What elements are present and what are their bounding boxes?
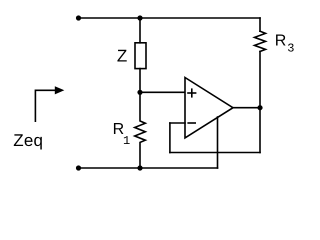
- svg-text:R: R: [275, 32, 287, 49]
- svg-text:Zeq: Zeq: [13, 131, 43, 150]
- node: top-left input terminal: [76, 15, 81, 20]
- wire: inverting input stub: [170, 122, 185, 124]
- op-amp - input marking: [188, 122, 195, 124]
- resistor R1: [135, 92, 146, 168]
- junction: top rail / Z branch: [137, 15, 142, 20]
- node: bottom-left terminal: [76, 165, 81, 170]
- wire: Z top lead: [139, 18, 141, 43]
- junction: R1 bottom / bottom rail: [137, 165, 142, 170]
- svg-text:1: 1: [123, 134, 130, 148]
- wire: top rail drop to R3: [259, 18, 261, 31]
- junction: output node (R3 bottom / output / feedback): [257, 105, 262, 110]
- op-amp U1 (triangle body): [185, 78, 233, 138]
- svg-text:3: 3: [287, 42, 294, 56]
- arrow: Zeq looking-in indicator: [35, 86, 64, 121]
- wire: op-amp output: [233, 107, 260, 109]
- resistor R3: [255, 31, 266, 51]
- junction: noninverting input node (Z / R1 / op-amp +): [137, 90, 142, 95]
- wire: top rail from input terminal to R3 drop: [79, 17, 261, 19]
- wire: R3 bottom lead to output node: [259, 52, 261, 108]
- op-amp + input marking: [188, 89, 196, 97]
- impedance Z (box symbol): [135, 43, 146, 69]
- wire: Z bottom lead to noninverting node: [139, 69, 141, 93]
- wire: bottom rail riser to op-amp underside: [217, 117, 219, 168]
- wire: bottom rail: [79, 167, 218, 169]
- wire: noninverting node to op-amp + input: [140, 91, 185, 93]
- wire: feedback left vertical: [169, 123, 171, 153]
- svg-text:Z: Z: [117, 47, 127, 66]
- wire: feedback right vertical up to output node: [259, 108, 261, 153]
- wire: feedback bottom horizontal: [170, 152, 260, 154]
